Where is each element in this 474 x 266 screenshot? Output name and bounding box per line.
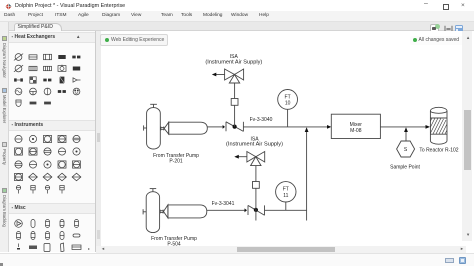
all changes saved (410, 36, 465, 45)
canvas (96, 31, 463, 246)
web editing experience button (100, 34, 168, 46)
reactor R-102 (424, 107, 457, 144)
left vertical tab strip (0, 22, 9, 252)
svg-text:11: 11 (283, 193, 288, 199)
wire: pipe H2 to valve (207, 209, 245, 211)
wire: riser from train 2 (306, 132, 308, 221)
wire: pipe valve 2 to riser (265, 209, 307, 211)
stencil panel (9, 31, 96, 252)
valve FV-3-3040 (butterfly) (226, 122, 243, 132)
wire: positioner to 3-way valve (train 2) (255, 166, 257, 182)
flow arrow into FV-3-3041 (245, 208, 248, 212)
positioner square (train 2) (253, 182, 260, 189)
wire: stem below valve (255, 210, 257, 221)
3-way valve U1 (instrument air, train 1) (225, 69, 244, 83)
exchanger H2 (horizontal cylinder, train 2) (160, 205, 207, 218)
svg-text:Fv-3-3041: Fv-3-3041 (212, 201, 235, 207)
positioner square (train 1) (231, 99, 238, 106)
svg-text:Sample Point: Sample Point (390, 164, 420, 170)
horizontal scrollbar (96, 246, 466, 253)
misc header (9, 203, 95, 214)
wire: valve stem to positioner (234, 105, 236, 126)
wire: sample point branch (405, 132, 407, 141)
heat exchangers header (9, 32, 95, 43)
svg-text:10: 10 (285, 101, 291, 107)
instruments header (9, 120, 95, 131)
svg-text:P-504: P-504 (167, 242, 181, 246)
exchanger H1 (horizontal cylinder, train 1) (160, 122, 207, 134)
sample point hexagon S (397, 141, 415, 157)
title bar (0, 0, 474, 11)
splitter strip (96, 31, 101, 246)
menu bar (0, 11, 474, 22)
svg-text:(Instrument Air Supply): (Instrument Air Supply) (226, 142, 283, 148)
junction arrow up into main pipe (305, 127, 309, 132)
tab row (0, 22, 474, 31)
instrument FT-10 (278, 90, 298, 127)
svg-text:FT: FT (283, 187, 289, 193)
wire: ISA supply arrow (train 2) (236, 156, 247, 158)
wire: main pipe valve to mixer (243, 126, 327, 128)
toolbar icons top-right (430, 24, 439, 33)
svg-text:Fv-3-3040: Fv-3-3040 (250, 117, 273, 123)
mixer M-08 (327, 114, 380, 138)
svg-text:(Instrument Air Supply): (Instrument Air Supply) (205, 59, 262, 65)
vertical scrollbar (462, 31, 472, 241)
3-way valve U2 (instrument air, train 2) (247, 152, 265, 166)
stencil shapes svg (9, 31, 96, 252)
wire: pipe H1 to valve (207, 126, 222, 128)
svg-text:P-201: P-201 (169, 159, 183, 165)
wire: mixer to reactor (380, 126, 425, 128)
wire: positioner to 3-way valve (234, 83, 236, 99)
svg-text:To Reactor R-102: To Reactor R-102 (419, 148, 458, 154)
wire: valve stem to positioner (train 2) (255, 188, 257, 210)
svg-text:M-08: M-08 (350, 128, 362, 134)
wire: ISA supply arrow (train 1) (213, 74, 225, 76)
flow arrow into FV-3-3040 (223, 125, 225, 129)
vessel V-504 (vertical tank, train 2) (143, 189, 159, 233)
status bar (0, 253, 474, 266)
valve FV-3-3041 (butterfly) (248, 205, 265, 215)
instrument FT-11 (276, 182, 296, 211)
svg-text:FT: FT (285, 94, 291, 100)
vessel V-201 (vertical tank, train 1) (144, 104, 161, 149)
